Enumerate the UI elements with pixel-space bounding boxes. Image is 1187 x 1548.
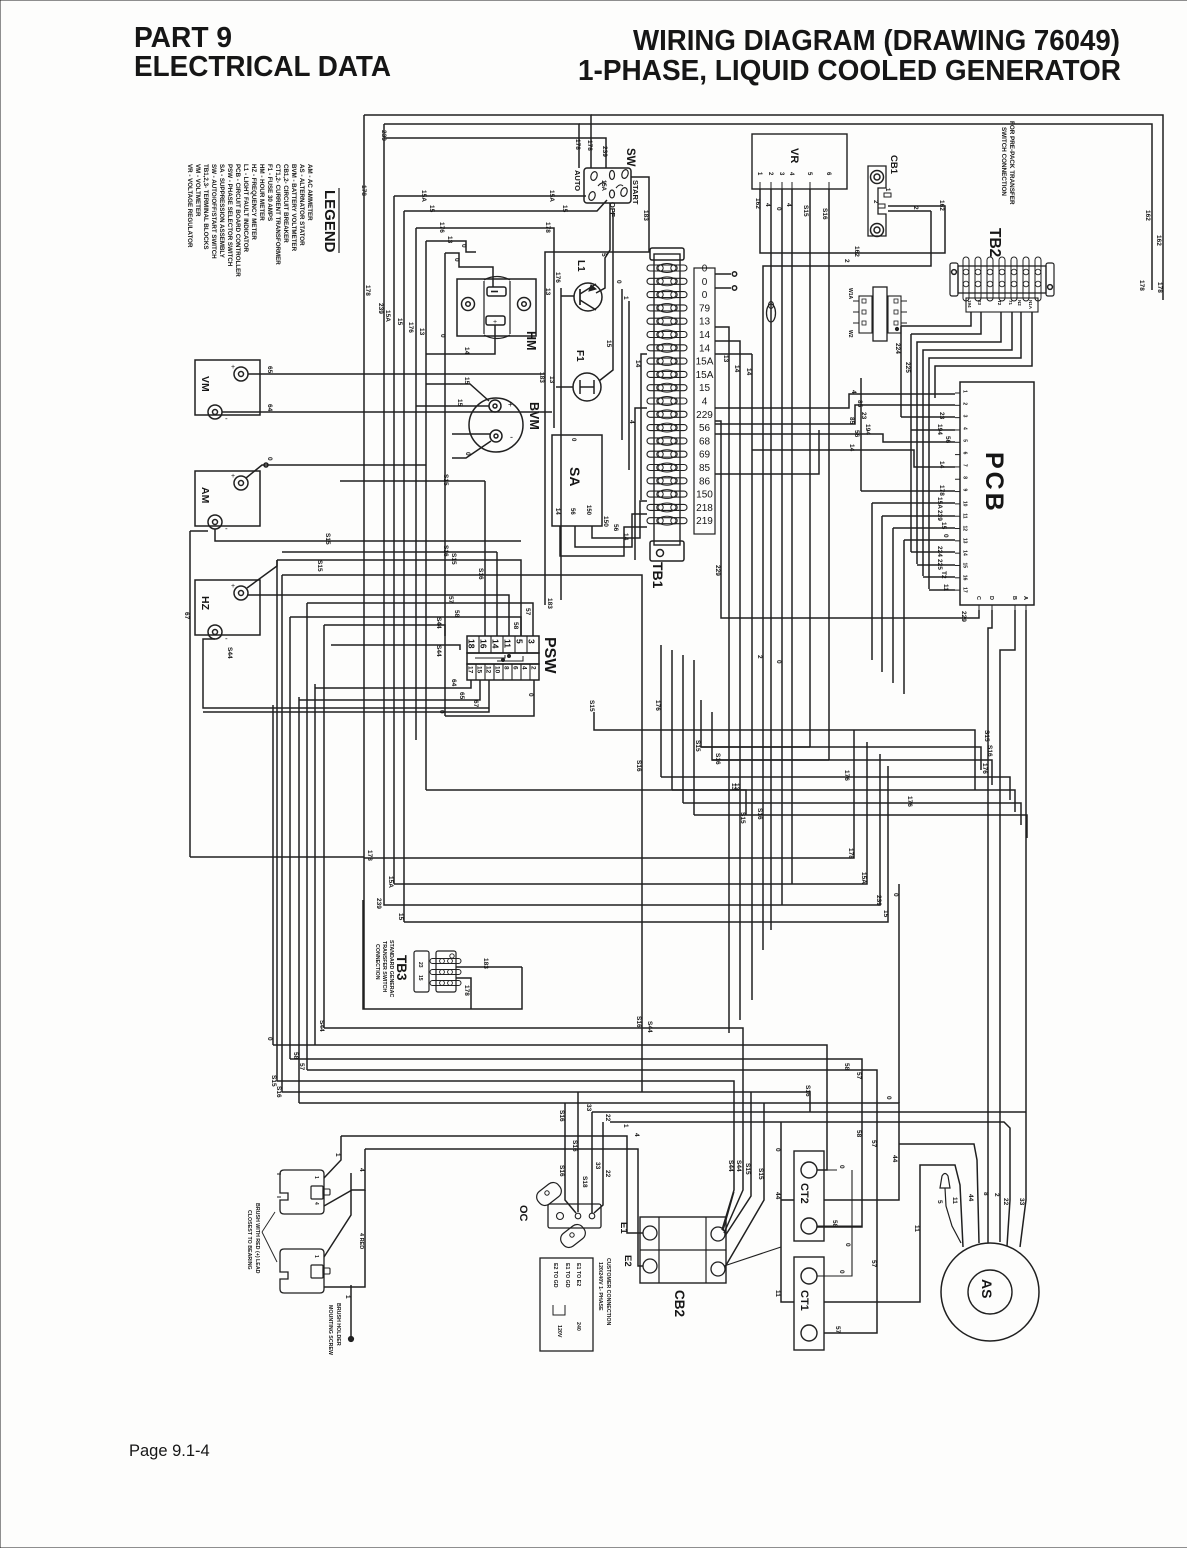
wire 67 far left vertical (189, 531, 191, 857)
svg-text:+: + (231, 473, 235, 480)
svg-text:162: 162 (1155, 235, 1162, 246)
svg-text:PSW - PHASE SELECTOR SWITCH: PSW - PHASE SELECTOR SWITCH (226, 164, 233, 267)
wire 194 to PCB pin4 (911, 429, 955, 431)
wire 239 second frame line to SW (384, 124, 579, 168)
TB1 row1 0 stub (715, 273, 731, 275)
svg-text:W2: W2 (847, 330, 853, 338)
svg-text:S44: S44 (435, 645, 442, 657)
wire 229 from TB1 row12 to PCB pin C (715, 421, 979, 618)
wire 8 from AS (987, 1112, 989, 1243)
svg-text:SW: SW (624, 148, 636, 167)
svg-text:79: 79 (699, 303, 711, 314)
BVM + terminal (489, 400, 501, 412)
svg-text:178: 178 (366, 850, 373, 861)
svg-text:TRANSFER SWITCH: TRANSFER SWITCH (381, 941, 387, 992)
PCB pin 14 (955, 552, 960, 554)
wire riser 0 left (272, 705, 274, 1045)
svg-text:15: 15 (940, 522, 947, 530)
wire 239 to PCB pin11 (882, 515, 955, 517)
svg-text:L1 - LIGHT FAULT INDICATOR: L1 - LIGHT FAULT INDICATOR (242, 164, 249, 253)
svg-text:239: 239 (377, 303, 384, 314)
svg-text:CONNECTION: CONNECTION (374, 944, 380, 980)
svg-text:178: 178 (574, 139, 581, 150)
svg-text:58: 58 (512, 622, 519, 630)
svg-text:219: 219 (696, 516, 713, 527)
wire 13 elbow to HM (425, 241, 427, 790)
svg-text:2: 2 (962, 402, 968, 405)
wire S16 row (282, 551, 497, 553)
wire TB1-4 to PCB pin1 (715, 394, 955, 408)
svg-text:F1 - FUSE 30 AMPS: F1 - FUSE 30 AMPS (266, 164, 273, 221)
wire 14b from TB1 row7 left (641, 354, 647, 500)
selector switch PSW upper row (467, 636, 539, 653)
svg-text:0: 0 (844, 1243, 851, 1247)
svg-text:S44: S44 (226, 647, 233, 659)
switch SW auto-off-start (584, 168, 631, 203)
svg-text:23: 23 (977, 300, 982, 306)
VR pin 1 (759, 182, 761, 189)
svg-text:56: 56 (853, 430, 860, 438)
svg-text:VR: VR (788, 148, 800, 163)
svg-text:4: 4 (962, 427, 968, 430)
wire 0 link CT2-CT1 (837, 1170, 852, 1276)
current transformer CT1 (794, 1257, 824, 1350)
svg-text:CT1: CT1 (798, 1290, 810, 1311)
wire 56 to PCB pin5 (715, 434, 955, 442)
svg-text:178: 178 (586, 140, 593, 151)
svg-text:1: 1 (313, 1255, 319, 1258)
wire 33 bus to AS (592, 1111, 1026, 1113)
svg-text:239: 239 (875, 895, 882, 906)
svg-text:0: 0 (838, 1165, 845, 1169)
svg-text:58: 58 (855, 1130, 862, 1138)
PSW lower row (467, 664, 539, 680)
svg-text:10: 10 (962, 501, 968, 507)
wire F1 left stub 13 (556, 386, 573, 388)
svg-text:33: 33 (594, 1162, 601, 1170)
wire VR pin6 S16 (828, 189, 830, 760)
svg-text:+: + (493, 319, 497, 326)
wire VR pin3 0 (781, 189, 783, 905)
svg-text:14: 14 (745, 368, 752, 376)
svg-text:178: 178 (1156, 282, 1163, 293)
svg-text:11: 11 (913, 1225, 920, 1232)
wire 238 drop to SW (384, 138, 606, 168)
wire 0 to BVM minus (452, 433, 490, 435)
svg-text:0: 0 (266, 457, 273, 461)
svg-text:0: 0 (775, 660, 782, 664)
indicator L1 (574, 283, 602, 311)
svg-text:BVM: BVM (527, 402, 541, 430)
svg-text:A: A (1022, 596, 1028, 600)
TB1 terminal row 6 (14) (647, 332, 687, 338)
wire riser 57 left (306, 603, 308, 1070)
svg-text:22: 22 (1002, 1198, 1009, 1206)
svg-text:176: 176 (981, 763, 988, 774)
svg-text:67: 67 (183, 612, 190, 620)
wire S15 drop to CB2 (725, 1092, 751, 1236)
svg-text:183: 183 (482, 958, 489, 969)
wire 65 from VM (248, 373, 545, 375)
svg-text:S44: S44 (735, 1160, 742, 1172)
wire 178 loop bottom left (364, 730, 854, 858)
svg-text:4: 4 (850, 390, 857, 394)
svg-text:15: 15 (417, 975, 423, 981)
svg-text:229: 229 (960, 611, 967, 622)
svg-text:183: 183 (546, 598, 553, 609)
wire 178 from TB3 (456, 978, 471, 1009)
svg-text:14: 14 (491, 639, 501, 649)
PCB pin 11 (955, 515, 960, 517)
TB1 terminal row 15 (69) (647, 451, 687, 457)
PCB pin 12 (955, 528, 960, 530)
wire 22 bus to AS (610, 1122, 1010, 1246)
svg-text:18: 18 (467, 639, 477, 649)
wire 15 riser from F1 to SW line (599, 211, 613, 381)
wire TB2 t4 down (917, 312, 1001, 564)
svg-text:BRUSH WITH RED (+) LEAD: BRUSH WITH RED (+) LEAD (254, 1203, 260, 1274)
wire 15 to BVM plus upper (426, 384, 489, 401)
svg-text:4: 4 (313, 1202, 319, 1205)
wire 225 vertical (910, 334, 912, 552)
svg-text:0: 0 (702, 290, 708, 301)
regulator VR (752, 134, 847, 189)
svg-text:4: 4 (358, 1168, 365, 1172)
svg-text:33: 33 (1018, 1198, 1025, 1206)
svg-text:4: 4 (764, 203, 771, 207)
VR pin 2 (770, 182, 772, 189)
svg-text:BRUSH HOLDER: BRUSH HOLDER (335, 1303, 341, 1346)
svg-text:S44: S44 (727, 1160, 734, 1172)
svg-text:178: 178 (1138, 280, 1145, 291)
svg-text:TB1: TB1 (650, 562, 666, 589)
PCB pin 6 (955, 454, 960, 456)
wire 0 44 11 vertical right of CB2 (781, 1122, 794, 1302)
wire 22 drop to OC (594, 1122, 603, 1213)
HM contact upper (487, 287, 506, 296)
svg-text:0: 0 (464, 452, 471, 456)
wire 0 staircase (594, 712, 975, 790)
wire TB2 t1 down (901, 312, 971, 326)
svg-text:CLOSEST TO BEARING: CLOSEST TO BEARING (246, 1210, 252, 1270)
svg-text:15A: 15A (696, 370, 714, 381)
svg-text:S15: S15 (757, 1168, 764, 1180)
svg-text:ELECTRICAL DATA: ELECTRICAL DATA (134, 51, 391, 83)
svg-text:0: 0 (439, 334, 446, 338)
wire 57 to PSW (307, 603, 533, 636)
svg-text:13: 13 (548, 376, 555, 384)
svg-text:0: 0 (885, 1096, 892, 1100)
svg-text:86: 86 (699, 476, 711, 487)
TB1 terminal row 10 (15) (647, 385, 687, 391)
svg-text:15: 15 (561, 205, 568, 213)
PCB pin 15 (955, 564, 960, 566)
svg-text:57: 57 (447, 596, 454, 604)
PCB pin 8 (955, 478, 960, 480)
svg-text:15: 15 (396, 318, 403, 326)
svg-text:14: 14 (622, 533, 629, 541)
TB2 terminal 5 (1011, 257, 1017, 301)
svg-text:13: 13 (446, 236, 453, 244)
svg-text:S16: S16 (635, 1016, 642, 1028)
svg-text:6: 6 (962, 452, 968, 455)
svg-text:178: 178 (544, 222, 551, 233)
wire 64 from PSW 17 (315, 680, 471, 688)
svg-text:56: 56 (569, 508, 575, 515)
svg-text:CB1,2- CIRCUIT BREAKER: CB1,2- CIRCUIT BREAKER (282, 164, 289, 243)
svg-text:S16: S16 (756, 808, 763, 820)
wire 2 from CB1 area (763, 211, 931, 950)
svg-text:2: 2 (756, 655, 763, 659)
wire 85 TB1 row16 (715, 430, 819, 474)
svg-text:224: 224 (936, 546, 943, 557)
svg-text:194: 194 (967, 300, 972, 308)
svg-text:F1: F1 (574, 350, 585, 362)
svg-text:OC: OC (517, 1205, 529, 1222)
wire PCB pin A down (1025, 610, 1027, 1112)
TB2 terminal 4 (999, 257, 1005, 301)
svg-text:1: 1 (962, 390, 968, 393)
wire 0 PSW bottom loop (445, 680, 534, 716)
svg-text:120/240V 1- PHASE: 120/240V 1- PHASE (597, 1262, 603, 1311)
svg-text:1: 1 (334, 1153, 341, 1157)
svg-text:0: 0 (702, 264, 708, 275)
svg-text:S44: S44 (318, 1020, 325, 1032)
svg-text:LEGEND: LEGEND (321, 190, 338, 253)
svg-text:N1A: N1A (1028, 300, 1033, 310)
svg-text:15: 15 (699, 383, 711, 394)
svg-text:15: 15 (428, 205, 435, 213)
svg-text:178: 178 (938, 485, 945, 496)
TB1 terminal row 7 (14) (647, 345, 687, 351)
TB1 terminal row 20 (219) (647, 518, 687, 524)
TB1 terminal row 3 (0) (647, 292, 687, 298)
VR pin 4 (791, 182, 793, 189)
PSW middle band (467, 653, 539, 664)
wire 178 to L1 region (416, 228, 554, 428)
svg-text:14: 14 (848, 444, 855, 452)
TB2 number strip (966, 298, 1038, 312)
wire S16 bus (282, 1092, 810, 1112)
wire VR pin1 162 (760, 189, 945, 253)
svg-text:64: 64 (266, 404, 273, 412)
current transformer CT2 (794, 1151, 824, 1241)
wire 176 staircase (661, 777, 1010, 800)
wire 67 from PSW 12 (203, 680, 489, 712)
svg-text:12: 12 (962, 526, 968, 532)
svg-text:TB3: TB3 (394, 955, 409, 981)
TB1 terminal row 8 (15A) (647, 358, 687, 364)
PCB pin 7 (955, 466, 960, 468)
wire 13 staircase (672, 790, 1015, 812)
svg-text:178: 178 (847, 848, 854, 859)
svg-text:44: 44 (967, 1194, 974, 1202)
TB1 terminal row 1 (0) (647, 265, 687, 271)
wire VR pin2 (770, 189, 772, 930)
svg-text:E2 TO GD: E2 TO GD (552, 1263, 558, 1288)
svg-text:13: 13 (544, 288, 551, 296)
wire 23 to PCB pin3 (901, 416, 955, 418)
svg-text:S16: S16 (571, 1140, 578, 1152)
wire 15 to PCB pin12 (893, 527, 955, 529)
svg-text:+: + (231, 364, 235, 371)
wire SA 14 loop to TB1 (560, 526, 647, 556)
wire VR pin5 S15 (809, 189, 811, 747)
wire 15A into SW (394, 195, 586, 197)
brush holder lower (280, 1249, 324, 1293)
svg-text:14: 14 (463, 347, 470, 355)
svg-text:CUSTOMER CONNECTION: CUSTOMER CONNECTION (605, 1258, 611, 1325)
svg-text:9: 9 (962, 489, 968, 492)
svg-text:15A: 15A (420, 190, 427, 202)
svg-text:E2: E2 (622, 1255, 633, 1267)
wire 183 from SW START down to F1 column (545, 177, 649, 605)
svg-text:67: 67 (472, 700, 479, 708)
svg-text:0: 0 (615, 280, 622, 284)
svg-text:57: 57 (834, 1326, 841, 1334)
svg-text:FOR PRE-PACK TRANSFER: FOR PRE-PACK TRANSFER (1008, 121, 1015, 205)
wire 33 drop to OC (591, 1112, 593, 1213)
svg-text:14: 14 (634, 360, 641, 368)
svg-text:56: 56 (612, 524, 619, 532)
svg-text:HM: HM (524, 331, 538, 350)
svg-text:0: 0 (838, 1270, 845, 1274)
brush holder upper (280, 1170, 324, 1214)
svg-text:15: 15 (882, 910, 889, 918)
HM contact lower (486, 316, 505, 325)
svg-text:S15: S15 (316, 560, 323, 572)
svg-text:CB1: CB1 (888, 155, 899, 175)
svg-text:225: 225 (904, 362, 911, 373)
svg-text:15A: 15A (696, 357, 714, 368)
svg-text:1: 1 (313, 1176, 319, 1179)
svg-text:58: 58 (453, 610, 460, 618)
svg-text:S15: S15 (739, 812, 746, 824)
svg-text:68: 68 (699, 436, 711, 447)
wire VR pin4 4 (791, 189, 793, 884)
svg-text:0: 0 (702, 277, 708, 288)
wire 176 from PCB pin D down (988, 610, 992, 1112)
svg-text:AS - ALTERNATOR STATOR: AS - ALTERNATOR STATOR (298, 164, 305, 246)
wire 0 to PCB pin13 (904, 539, 955, 541)
svg-text:0: 0 (527, 693, 534, 697)
TB2 terminal 2 (975, 257, 981, 301)
svg-text:176: 176 (554, 272, 561, 283)
wire 0 diagonal from BVM minus (452, 441, 491, 458)
svg-text:WIRING DIAGRAM (DRAWING 76049): WIRING DIAGRAM (DRAWING 76049) (633, 25, 1120, 57)
svg-text:11: 11 (962, 513, 968, 519)
svg-text:8: 8 (503, 666, 510, 670)
svg-text:1: 1 (344, 1295, 351, 1299)
svg-text:STANDARD GENERAC: STANDARD GENERAC (388, 940, 394, 997)
svg-text:183: 183 (642, 210, 649, 221)
wire 15 to BVM plus (416, 405, 489, 407)
wire TB2 t5 down (923, 312, 1012, 576)
svg-text:VM: VM (199, 376, 211, 392)
wire 13 from TB1 row5 (715, 327, 729, 1033)
wire brush1 to riser (324, 1136, 341, 1178)
svg-text:S15: S15 (744, 1163, 751, 1175)
svg-text:-: - (225, 634, 228, 643)
TB1 terminal row 9 (15A) (647, 371, 687, 377)
svg-text:6: 6 (512, 666, 519, 670)
fuse F1 30A (573, 373, 601, 401)
terminal block TB1 body (654, 254, 680, 545)
svg-text:15: 15 (476, 666, 483, 674)
svg-text:PCB: PCB (980, 452, 1008, 514)
svg-text:162: 162 (938, 200, 945, 211)
wire to PSW 11 from HZ (248, 595, 509, 636)
wire S15 staircase (701, 700, 981, 770)
wire PCB pin B down to AS (1000, 610, 1015, 1242)
svg-text:22: 22 (604, 1114, 611, 1122)
svg-text:T2: T2 (940, 571, 947, 579)
PCB pin 10 (955, 503, 960, 505)
svg-text:69: 69 (699, 450, 711, 461)
svg-text:15: 15 (962, 562, 968, 568)
svg-text:PART 9: PART 9 (134, 22, 232, 54)
svg-text:229: 229 (714, 565, 721, 576)
svg-text:5: 5 (600, 253, 607, 257)
svg-text:0: 0 (438, 710, 445, 714)
PCB pin 9 (955, 491, 960, 493)
svg-text:CT1,2- CURRENT TRANSFORMER: CT1,2- CURRENT TRANSFORMER (274, 164, 281, 265)
breaker CB1 (868, 166, 886, 236)
suppressor SA (552, 435, 602, 526)
svg-text:162: 162 (754, 198, 761, 209)
svg-text:-: - (510, 432, 513, 442)
svg-text:7: 7 (962, 464, 968, 467)
wire TB3 frame (363, 900, 522, 1009)
TB1 terminal row 17 (86) (647, 478, 687, 484)
svg-text:1-PHASE, LIQUID COOLED GENERAT: 1-PHASE, LIQUID COOLED GENERATOR (578, 55, 1121, 87)
TB1 terminal row 11 (4) (647, 398, 687, 404)
wire top frame right 162 (591, 115, 1163, 300)
svg-text:57: 57 (524, 608, 531, 616)
wire 14 from TB1 row6 (715, 341, 740, 1020)
svg-text:0: 0 (266, 1037, 273, 1041)
svg-text:+: + (508, 400, 513, 409)
svg-text:PSW: PSW (541, 637, 558, 674)
HM mount screw right (518, 298, 531, 311)
svg-text:START: START (631, 180, 640, 205)
svg-text:0: 0 (892, 893, 899, 897)
svg-text:14: 14 (554, 508, 560, 515)
svg-text:162: 162 (1144, 210, 1151, 221)
svg-text:150: 150 (585, 505, 591, 516)
svg-text:120V: 120V (556, 1325, 562, 1338)
svg-text:194: 194 (936, 424, 943, 435)
svg-text:15: 15 (456, 399, 463, 407)
svg-text:44: 44 (891, 1155, 898, 1163)
brush note arrows (262, 1212, 275, 1232)
svg-text:AUTO: AUTO (573, 170, 582, 191)
svg-text:E1: E1 (618, 1222, 629, 1234)
wire 5 from SW OFF to L1 (596, 203, 610, 293)
svg-text:4: 4 (785, 203, 792, 207)
wire S16 drop to OC (565, 1103, 576, 1213)
svg-text:13: 13 (733, 783, 740, 791)
svg-text:2: 2 (530, 666, 537, 670)
svg-text:W1A: W1A (847, 288, 853, 300)
TB1 terminal row 19 (218) (647, 504, 687, 510)
wire TB2 t6 down (929, 312, 1021, 589)
PCB pin 1 (955, 392, 960, 394)
breaker CB2 (640, 1217, 726, 1283)
svg-text:3: 3 (527, 639, 537, 644)
wire 0 from HM top (445, 253, 493, 287)
svg-text:S16: S16 (804, 1085, 811, 1097)
